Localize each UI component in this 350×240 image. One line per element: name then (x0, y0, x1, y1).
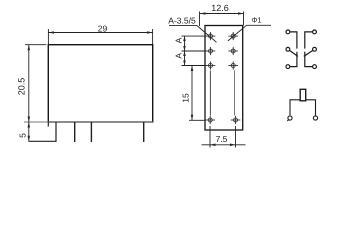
bottom view rectangle (205, 26, 243, 131)
svg-text:15: 15 (181, 93, 191, 103)
pin 2 (side view) (90, 122, 92, 142)
coil terminal left (288, 116, 292, 120)
dimension 29 extension lines (47, 29, 49, 44)
svg-text:Φ1: Φ1 (251, 15, 261, 24)
right pole com arm (304, 50, 313, 56)
terminal circles right pole (313, 30, 317, 34)
coil box (300, 89, 306, 101)
dimension 7.5 (209, 126, 211, 148)
right pole NC contact (305, 32, 313, 49)
svg-text:A: A (174, 53, 184, 59)
pin 3 (side view) (143, 122, 145, 142)
svg-text:12.6: 12.6 (211, 3, 229, 13)
pin 1 (side view) (74, 122, 76, 142)
hole R3 (231, 64, 235, 68)
hole L2 (209, 49, 213, 53)
body bottom seat line (gray) (24, 121, 153, 123)
dimension 12.6 (199, 12, 201, 27)
mounting bracket below body (29, 122, 57, 141)
dimension 5 line (28, 122, 30, 141)
dimension texts (17, 3, 262, 144)
svg-text:A: A (174, 37, 184, 43)
dimension 15 (191, 66, 193, 121)
coil right lead (306, 100, 316, 116)
hole R4 (bottom) (234, 118, 238, 122)
dimension 29 line (48, 32, 152, 34)
terminal circles left pole (286, 30, 290, 34)
coil terminal right (313, 116, 317, 120)
left pole NO contact (290, 52, 297, 67)
hole centerline left (209, 71, 211, 116)
hole centerline right (234, 71, 236, 116)
left pole NC contact (290, 32, 297, 49)
right pole NO contact (305, 52, 313, 67)
left pole com arm (290, 50, 298, 56)
dimension 20.5 extension line (25, 44, 46, 46)
svg-text:20.5: 20.5 (17, 78, 27, 96)
label A-3.5/5 leader (169, 25, 197, 27)
svg-text:29: 29 (98, 23, 108, 33)
svg-text:7.5: 7.5 (216, 134, 228, 144)
contact schematic (DPDT) (286, 30, 316, 69)
holes: left column (205, 32, 240, 124)
hole R1 (231, 34, 235, 38)
svg-text:5: 5 (17, 133, 27, 138)
hole L3 (209, 64, 213, 68)
dimension 20.5 line (28, 45, 30, 122)
coil left lead (290, 100, 300, 116)
hole L4 (bottom) (208, 118, 212, 122)
dimension A (upper) line (184, 36, 186, 65)
label phi1 leader (247, 24, 272, 26)
hole R2 (231, 49, 235, 53)
relay body outline (side view) (48, 45, 152, 122)
svg-text:A-3.5/5: A-3.5/5 (168, 15, 196, 25)
coil symbol (287, 89, 317, 121)
hole L1 (209, 34, 213, 38)
A dim extension lines (182, 35, 207, 37)
